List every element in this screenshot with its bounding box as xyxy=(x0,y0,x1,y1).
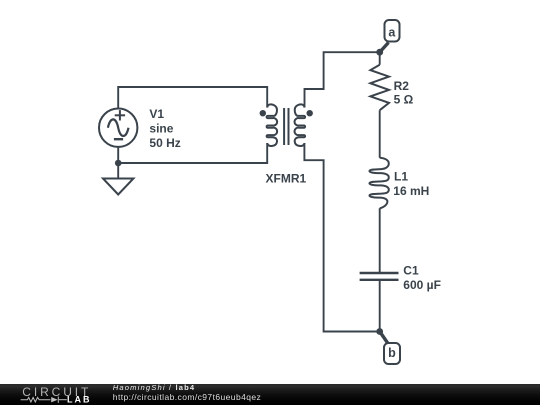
svg-text:50 Hz: 50 Hz xyxy=(149,136,180,150)
capacitor C1 plate bottom xyxy=(360,279,399,281)
wire L1 to C1 xyxy=(379,208,381,272)
wire secondary top to node a xyxy=(305,52,380,107)
transformer XFMR1 secondary winding xyxy=(295,104,306,146)
svg-text:R2: R2 xyxy=(394,79,410,93)
footer url text xyxy=(113,393,261,402)
capacitor C1 plate top xyxy=(360,272,399,274)
ground xyxy=(103,179,133,195)
svg-text:sine: sine xyxy=(149,122,173,136)
svg-text:a: a xyxy=(388,26,396,40)
V1 plus sign xyxy=(115,110,125,120)
wire R2 to L1 xyxy=(379,110,381,158)
transformer XFMR1 primary winding xyxy=(267,104,278,146)
footer bar xyxy=(0,384,540,405)
voltage source V1 xyxy=(99,109,137,147)
svg-text:16 mH: 16 mH xyxy=(393,184,429,198)
resistor R2 xyxy=(370,65,389,110)
R2 labels xyxy=(394,79,414,107)
V1 minus sign xyxy=(114,138,123,140)
phase dot secondary xyxy=(307,110,313,116)
node a box xyxy=(385,20,400,42)
CircuitLab logo xyxy=(0,384,110,405)
svg-text:V1: V1 xyxy=(149,107,164,121)
node a leader xyxy=(380,43,389,53)
node a junction dot xyxy=(376,49,383,56)
junction at V1 bottom xyxy=(115,160,122,167)
transformer core xyxy=(284,108,288,145)
svg-text:XFMR1: XFMR1 xyxy=(266,172,307,186)
footer title text xyxy=(113,384,195,392)
inductor L1 xyxy=(369,158,388,208)
wire secondary bottom to node b xyxy=(304,143,379,332)
C1 labels xyxy=(403,263,441,292)
svg-text:L1: L1 xyxy=(394,170,408,184)
L1 labels xyxy=(393,170,429,198)
V1 labels xyxy=(149,107,180,150)
wire top from V1 to XFMR1 primary xyxy=(118,87,267,109)
svg-text:b: b xyxy=(388,346,396,360)
svg-text:LAB: LAB xyxy=(67,395,92,405)
phase dot primary xyxy=(260,110,266,116)
svg-text:600 µF: 600 µF xyxy=(403,278,441,292)
logo wire squiggle with resistor and diode xyxy=(21,397,67,403)
node b leader xyxy=(380,332,388,344)
wire bottom from V1 to XFMR1 primary xyxy=(118,143,267,163)
wire node a to R2 xyxy=(379,52,381,65)
node b junction dot xyxy=(376,328,383,335)
svg-text:5 Ω: 5 Ω xyxy=(394,93,414,107)
wire C1 to node b xyxy=(379,281,381,332)
svg-text:C1: C1 xyxy=(403,263,419,277)
ground stem xyxy=(117,163,119,179)
node b box xyxy=(384,343,400,364)
